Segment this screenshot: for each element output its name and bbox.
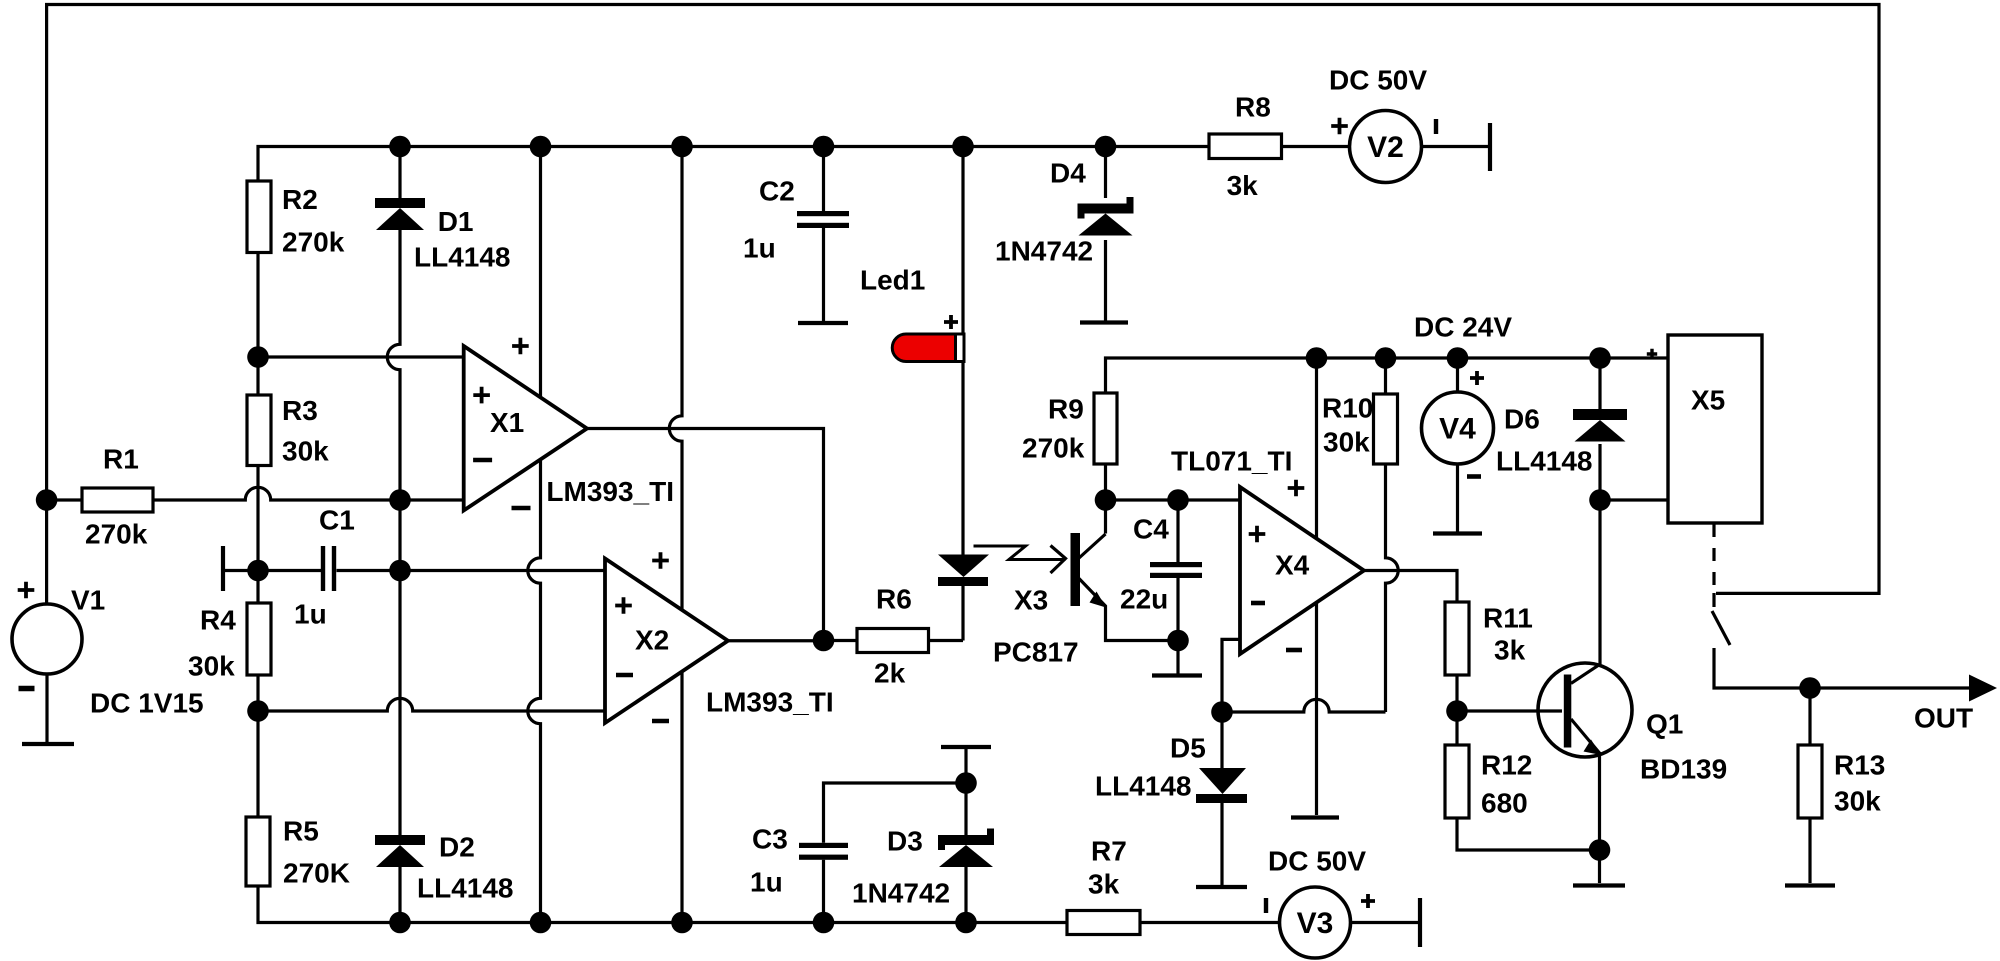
- svg-text:BD139: BD139: [1640, 754, 1727, 785]
- svg-text:LL4148: LL4148: [417, 873, 514, 904]
- svg-text:Q1: Q1: [1646, 709, 1683, 740]
- svg-text:30k: 30k: [188, 651, 235, 682]
- svg-text:1u: 1u: [294, 599, 327, 630]
- svg-text:DC 1V15: DC 1V15: [90, 688, 204, 719]
- svg-text:1u: 1u: [750, 867, 783, 898]
- svg-text:R10: R10: [1322, 393, 1373, 424]
- svg-text:DC 50V: DC 50V: [1329, 65, 1427, 96]
- svg-text:30k: 30k: [1834, 786, 1881, 817]
- svg-text:R5: R5: [283, 816, 319, 847]
- svg-text:R3: R3: [282, 395, 318, 426]
- svg-text:V1: V1: [71, 585, 105, 616]
- svg-text:270k: 270k: [1022, 433, 1085, 464]
- svg-text:LM393_TI: LM393_TI: [706, 687, 834, 718]
- svg-text:2k: 2k: [874, 658, 906, 689]
- svg-text:X1: X1: [490, 407, 524, 438]
- svg-text:V3: V3: [1297, 907, 1334, 940]
- svg-text:X5: X5: [1691, 385, 1725, 416]
- svg-text:V4: V4: [1439, 413, 1476, 446]
- svg-text:PC817: PC817: [993, 637, 1079, 668]
- svg-text:3k: 3k: [1227, 170, 1259, 201]
- svg-text:270k: 270k: [282, 227, 345, 258]
- svg-text:270k: 270k: [85, 519, 148, 550]
- svg-text:R6: R6: [876, 584, 912, 615]
- svg-text:22u: 22u: [1120, 584, 1168, 615]
- svg-text:TL071_TI: TL071_TI: [1171, 446, 1292, 477]
- svg-text:X3: X3: [1014, 585, 1048, 616]
- svg-text:LL4148: LL4148: [1496, 446, 1593, 477]
- svg-text:270K: 270K: [283, 858, 350, 889]
- svg-text:30k: 30k: [1323, 427, 1370, 458]
- svg-text:3k: 3k: [1494, 635, 1526, 666]
- svg-text:X4: X4: [1275, 550, 1310, 581]
- svg-text:D2: D2: [439, 832, 475, 863]
- svg-text:OUT: OUT: [1914, 703, 1973, 734]
- svg-text:1u: 1u: [743, 233, 776, 264]
- svg-text:C4: C4: [1133, 514, 1169, 545]
- svg-text:R7: R7: [1091, 836, 1127, 867]
- svg-text:DC 24V: DC 24V: [1414, 312, 1512, 343]
- svg-text:C2: C2: [759, 176, 795, 207]
- svg-text:C3: C3: [752, 824, 788, 855]
- svg-text:1N4742: 1N4742: [995, 236, 1093, 267]
- svg-text:R13: R13: [1834, 750, 1885, 781]
- svg-text:LM393_TI: LM393_TI: [546, 476, 674, 507]
- svg-text:D4: D4: [1050, 158, 1086, 189]
- svg-text:680: 680: [1481, 788, 1528, 819]
- svg-text:Led1: Led1: [860, 265, 925, 296]
- svg-text:R8: R8: [1235, 92, 1271, 123]
- svg-text:1N4742: 1N4742: [852, 878, 950, 909]
- svg-text:C1: C1: [319, 505, 355, 536]
- svg-text:DC 50V: DC 50V: [1268, 846, 1366, 877]
- svg-text:D5: D5: [1170, 733, 1206, 764]
- svg-text:LL4148: LL4148: [1095, 771, 1192, 802]
- svg-text:R9: R9: [1048, 394, 1084, 425]
- svg-text:D1: D1: [438, 206, 474, 237]
- svg-text:R12: R12: [1481, 750, 1532, 781]
- svg-text:D3: D3: [887, 826, 923, 857]
- svg-text:V2: V2: [1367, 131, 1404, 164]
- svg-text:D6: D6: [1504, 404, 1540, 435]
- svg-text:X2: X2: [635, 625, 669, 656]
- svg-text:R11: R11: [1483, 603, 1533, 634]
- svg-text:3k: 3k: [1088, 869, 1120, 900]
- svg-text:R1: R1: [103, 444, 139, 475]
- svg-text:R4: R4: [200, 605, 236, 636]
- svg-text:30k: 30k: [282, 435, 329, 466]
- svg-text:R2: R2: [282, 184, 318, 215]
- svg-text:LL4148: LL4148: [414, 242, 511, 273]
